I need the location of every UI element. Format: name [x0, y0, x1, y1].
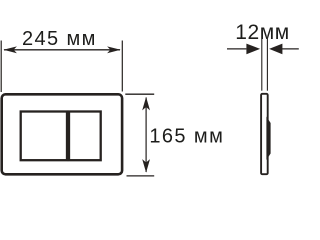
thickness dimension right arrowhead: [269, 44, 282, 55]
height dimension top arrowhead: [142, 97, 150, 111]
height dimension line: [145, 98, 147, 173]
thickness dimension left leader line: [227, 48, 246, 50]
height dimension extension line top: [125, 93, 154, 95]
svg-text:165 мм: 165 мм: [149, 125, 224, 147]
width dimension line: [4, 49, 120, 51]
thickness dimension extension line right: [266, 39, 268, 91]
plate side view button protrusion: [266, 117, 270, 161]
width dimension right arrowhead: [107, 46, 121, 53]
thickness dimension left arrowhead: [246, 44, 260, 55]
height dimension extension line bottom: [127, 175, 155, 177]
width dimension extension line right: [121, 41, 123, 92]
svg-text:12мм: 12мм: [235, 21, 289, 44]
width dimension extension line left: [0, 41, 2, 93]
plate side view body: [261, 94, 268, 174]
plate front view outer body: [2, 94, 122, 174]
svg-text:245 мм: 245 мм: [22, 28, 97, 50]
right flush button: [69, 112, 101, 161]
width dimension left arrowhead: [3, 46, 17, 53]
height dimension bottom arrowhead: [142, 159, 150, 173]
thickness dimension extension line left: [261, 39, 263, 91]
left flush button: [21, 112, 67, 161]
thickness dimension right leader line: [282, 48, 299, 50]
